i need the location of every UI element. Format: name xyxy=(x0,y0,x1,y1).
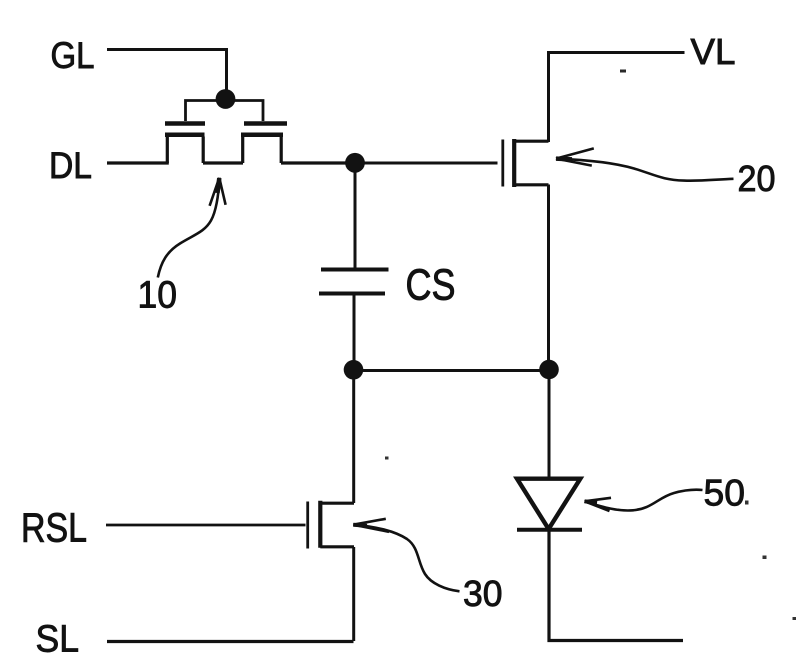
leader arrow to transistor 30 xyxy=(353,519,459,592)
svg-text:SL: SL xyxy=(36,619,80,661)
transistor 30 xyxy=(308,501,354,549)
transistor 10 left gate bar xyxy=(165,121,205,126)
transistor 10 left channel electrode xyxy=(165,135,205,163)
wire DL left segment xyxy=(107,161,169,164)
junction dot storage node right xyxy=(539,360,559,380)
stray scan speck right of diode wire xyxy=(763,556,767,560)
svg-text:10: 10 xyxy=(138,275,178,317)
wire DL junction to transistor 20 gate xyxy=(362,162,498,165)
transistor 10 gate connector xyxy=(186,101,264,122)
leader arrow to transistor 10 xyxy=(158,178,226,278)
wire GL horizontal and down to gate node xyxy=(107,50,227,91)
wire DL between the two gates xyxy=(203,161,243,164)
svg-text:20: 20 xyxy=(738,158,776,199)
wire junction down to diode 50 xyxy=(548,370,551,477)
svg-text:CS: CS xyxy=(406,261,456,310)
svg-text:30: 30 xyxy=(463,573,503,614)
junction dot at gate of transistor 10 xyxy=(216,89,236,109)
svg-text:50: 50 xyxy=(704,473,746,514)
stray scan speck bottom right corner xyxy=(793,617,797,620)
transistor 20 xyxy=(503,139,549,187)
wire junction up to transistor 20 source xyxy=(547,185,550,371)
wire DL from transistor 10 to junction xyxy=(281,161,348,164)
wire storage node horizontal xyxy=(354,369,550,372)
transistor 10 right channel electrode xyxy=(241,135,283,163)
transistor 10 right gate bar xyxy=(244,121,287,126)
stray scan speck near VL corner xyxy=(620,70,626,73)
leader arrow to diode 50 xyxy=(585,490,703,511)
junction dot storage node left xyxy=(344,360,364,380)
wire transistor 20 drain up to VL xyxy=(549,53,685,143)
wire transistor 30 drain up to storage node xyxy=(352,370,355,503)
svg-text:GL: GL xyxy=(51,35,95,76)
svg-text:RSL: RSL xyxy=(21,505,87,551)
stray scan speck left of storage node area xyxy=(385,457,389,460)
stray scan speck comma after label 50 xyxy=(745,501,749,505)
svg-text:VL: VL xyxy=(691,31,736,72)
junction dot DL / storage capacitor xyxy=(345,153,365,173)
wire junction down to capacitor xyxy=(354,163,357,268)
diode 50 light emitting element xyxy=(517,479,582,530)
wire SL left segment xyxy=(107,640,354,643)
wire transistor 30 source down to SL xyxy=(352,547,355,641)
leader arrow to transistor 20 xyxy=(556,148,734,180)
wire capacitor to storage node xyxy=(353,294,356,363)
capacitor CS xyxy=(319,270,389,294)
svg-text:DL: DL xyxy=(49,145,92,186)
wire RSL to transistor 30 gate xyxy=(106,524,306,527)
wire diode cathode down and right SL segment xyxy=(549,530,683,641)
